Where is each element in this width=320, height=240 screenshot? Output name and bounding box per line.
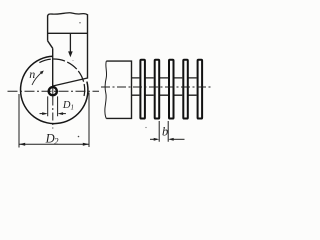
- shaft wavy break edge: [105, 61, 107, 118]
- dimension D1 arrows: [40, 112, 66, 115]
- fork bottom diagonal edge: [53, 78, 87, 86]
- shaft centerline: [101, 86, 213, 88]
- dashed tread circle: [39, 59, 84, 97]
- horizontal centerline: [8, 90, 100, 92]
- disc fin 5: [198, 60, 203, 119]
- rotation curved arrow: [32, 72, 42, 85]
- fork front edge: [52, 48, 54, 86]
- hub top line segments: [132, 77, 197, 79]
- dimension D2 line with arrows: [19, 143, 89, 146]
- caster stem left edge: [47, 16, 49, 41]
- disc fin 2: [155, 60, 160, 119]
- axle bore circle (bold): [49, 87, 57, 95]
- dimension b extension lines: [159, 121, 168, 142]
- dimension b arrows: [150, 138, 185, 141]
- caster stem top wavy break edge: [48, 13, 88, 16]
- stem seam line: [48, 32, 88, 34]
- svg-text:b: b: [162, 124, 168, 138]
- caster stem chamfer: [48, 41, 53, 49]
- axle center vertical tick: [52, 84, 54, 97]
- hub bottom line segments: [132, 94, 197, 96]
- caster stem right edge: [87, 14, 89, 78]
- shaft body outline: [106, 61, 131, 118]
- disc fin 3: [169, 60, 174, 119]
- svg-text:n: n: [29, 67, 35, 81]
- dimension D2 extension lines: [19, 93, 89, 148]
- vertical centerline below axle: [52, 98, 54, 129]
- scan specks: [79, 22, 80, 23]
- disc fin 4: [183, 60, 188, 119]
- wheel circle D2 (solid, hidden behind fork at top-right): [21, 56, 88, 123]
- load force arrow: [68, 34, 73, 57]
- dimension D1 extension lines: [48, 96, 58, 116]
- disc fin 1: [140, 60, 145, 119]
